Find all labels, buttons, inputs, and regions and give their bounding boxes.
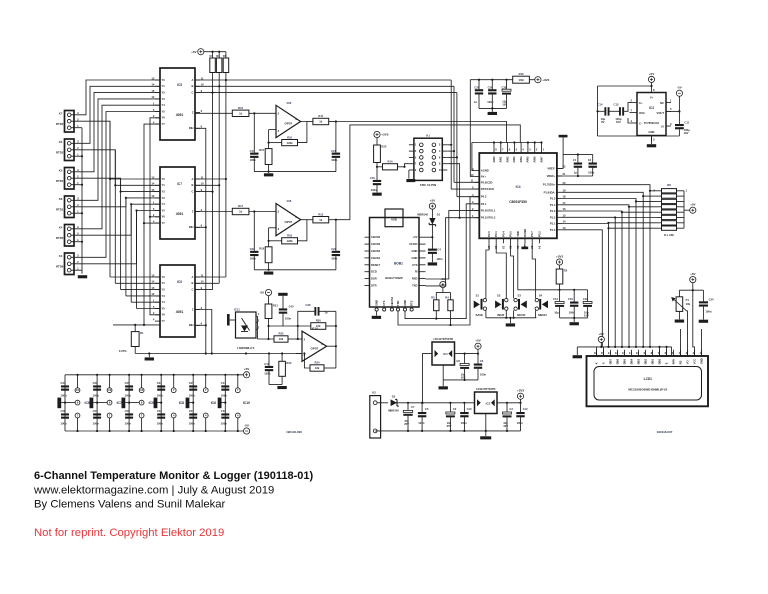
capacitor C2 (100n) xyxy=(588,158,597,174)
wire VREF+ to C1 C2 xyxy=(557,168,593,177)
svg-text:R9: R9 xyxy=(223,54,227,58)
svg-text:DB7: DB7 xyxy=(608,358,612,364)
note 190118-006 xyxy=(286,430,302,434)
wire AGND stub xyxy=(472,143,474,171)
svg-text:100n: 100n xyxy=(157,422,163,426)
svg-text:+5V: +5V xyxy=(244,367,249,371)
resistor R3 (10k) xyxy=(431,295,439,310)
wire C23 to ground rail xyxy=(253,256,255,270)
wire +5V to IC3 xyxy=(598,83,653,88)
svg-text:16V: 16V xyxy=(503,424,508,428)
svg-text:10: 10 xyxy=(439,168,442,172)
svg-text:P0.5: P0.5 xyxy=(509,231,513,237)
svg-text:INH: INH xyxy=(189,225,194,229)
wire R17 node to C23 xyxy=(253,212,255,251)
svg-text:Y4: Y4 xyxy=(162,300,166,304)
wire IC4 to DECR xyxy=(511,243,514,298)
wire RXD to IC4 xyxy=(426,211,480,279)
wire +5V to R3 R4 xyxy=(436,288,450,300)
wire to C13 C16 xyxy=(560,290,575,302)
regulator IC1 (LD1117DT50TR) xyxy=(432,337,455,365)
svg-text:+5V: +5V xyxy=(690,203,695,207)
regulator IC2 (LD1117DT33TR) xyxy=(475,387,498,414)
wire P1 wiper to LCD VO xyxy=(686,311,689,356)
svg-text:-5V: -5V xyxy=(244,423,249,427)
decoupling unit IC10 (C41/C39) xyxy=(218,374,250,432)
wire C16 C18 down xyxy=(560,307,588,322)
resistor R21 (10k) xyxy=(265,304,278,319)
ground (P1) xyxy=(675,320,684,323)
svg-text:Y3: Y3 xyxy=(162,97,166,101)
svg-text:MBR140: MBR140 xyxy=(388,408,399,412)
svg-text:A: A xyxy=(192,177,194,181)
svg-text:C32: C32 xyxy=(157,409,162,413)
svg-text:R6: R6 xyxy=(667,183,671,187)
svg-text:C2: C2 xyxy=(588,158,592,162)
svg-text:BOB-FT232R: BOB-FT232R xyxy=(385,276,402,280)
svg-text:100n: 100n xyxy=(61,422,67,426)
svg-text:IC9: IC9 xyxy=(177,280,182,284)
svg-text:100n: 100n xyxy=(331,158,337,162)
power +3V3 (via R16) xyxy=(529,77,549,83)
svg-text:OSC: OSC xyxy=(639,111,645,115)
wire DECR to ground rail xyxy=(513,310,515,318)
svg-text:GND: GND xyxy=(412,249,418,253)
svg-text:D2: D2 xyxy=(392,394,396,398)
svg-text:P1.5: P1.5 xyxy=(550,197,556,201)
wire op-amp pin3 to R18 xyxy=(268,228,277,247)
svg-text:Y6: Y6 xyxy=(162,116,166,120)
svg-text:DTR: DTR xyxy=(371,284,377,288)
capacitor C9 (10u 25V) xyxy=(446,407,457,428)
ground (K1) xyxy=(406,179,415,182)
svg-text:A: A xyxy=(192,275,194,279)
svg-text:CBUS2: CBUS2 xyxy=(371,242,381,246)
wire C40 xyxy=(282,296,284,326)
svg-text:LD1117DT33TR: LD1117DT33TR xyxy=(476,387,495,391)
svg-text:C24: C24 xyxy=(61,381,66,385)
wire C3 xyxy=(506,403,508,431)
svg-text:Y3: Y3 xyxy=(162,196,166,200)
svg-text:INH: INH xyxy=(189,126,194,130)
svg-text:16: 16 xyxy=(108,388,111,392)
svg-text:Y2: Y2 xyxy=(162,190,166,194)
resistor R19 (120k) xyxy=(282,234,298,244)
wire analog ground rail xyxy=(254,158,336,172)
wire reference rail to IC10 pin3 xyxy=(296,353,302,355)
svg-text:100n: 100n xyxy=(250,256,256,260)
capacitor C21 (100n) xyxy=(331,149,340,162)
svg-text:13k: 13k xyxy=(315,366,320,370)
wire SAVE to ground rail xyxy=(485,310,487,318)
svg-text:19: 19 xyxy=(501,246,505,249)
svg-text:R25: R25 xyxy=(381,145,386,149)
svg-text:Y5: Y5 xyxy=(162,109,166,113)
svg-text:AIN2: AIN2 xyxy=(505,156,509,163)
ground (LCD pin16) xyxy=(573,355,582,358)
svg-text:E: E xyxy=(664,362,668,364)
svg-text:IC5: IC5 xyxy=(85,401,90,405)
svg-text:C31: C31 xyxy=(93,409,98,413)
wire to C18 xyxy=(573,289,587,302)
svg-text:Y7: Y7 xyxy=(162,319,166,323)
resistor R14 (1k) xyxy=(383,160,398,170)
svg-text:4051: 4051 xyxy=(176,113,184,117)
wire TXD to IC4 xyxy=(426,218,480,286)
svg-text:BOB1: BOB1 xyxy=(394,262,403,266)
svg-text:C6: C6 xyxy=(480,359,484,363)
power +3V3 (K1 pull-up) xyxy=(374,131,389,137)
connector K6 (RTD3) xyxy=(56,139,79,161)
svg-text:C3: C3 xyxy=(509,407,513,411)
svg-text:100n: 100n xyxy=(517,421,523,425)
svg-text:100n: 100n xyxy=(418,421,424,425)
svg-text:VCC: VCC xyxy=(692,359,696,365)
svg-text:P0.1/XTAL2: P0.1/XTAL2 xyxy=(481,216,496,220)
wire power ground rail xyxy=(375,430,520,432)
svg-text:C1: C1 xyxy=(573,158,577,162)
author text xyxy=(34,499,226,511)
svg-text:RTD1: RTD1 xyxy=(56,208,64,212)
wire R17 to op-amp xyxy=(249,210,276,212)
svg-text:Y0: Y0 xyxy=(162,78,166,82)
svg-text:C4: C4 xyxy=(437,247,441,251)
svg-text:100n: 100n xyxy=(461,421,467,425)
svg-text:10Ω: 10Ω xyxy=(519,78,525,82)
capacitor C28 (10u 10V) xyxy=(502,85,512,106)
svg-text:+3V3: +3V3 xyxy=(556,254,563,258)
ground (RTD return) xyxy=(78,275,87,278)
svg-text:+3V3: +3V3 xyxy=(542,78,549,82)
ground DGND (IC4) xyxy=(521,243,528,249)
svg-text:100n: 100n xyxy=(221,394,227,398)
svg-text:CTS: CTS xyxy=(382,300,386,306)
svg-text:100n: 100n xyxy=(93,422,99,426)
svg-text:IC7: IC7 xyxy=(177,182,182,186)
svg-text:0.07%: 0.07% xyxy=(119,349,127,353)
svg-text:GND: GND xyxy=(699,358,703,364)
svg-text:6V: 6V xyxy=(601,120,604,124)
svg-text:Y6: Y6 xyxy=(162,313,166,317)
svg-text:AIN7: AIN7 xyxy=(539,156,543,163)
capacitor C20 (1n) xyxy=(474,85,483,104)
power +3V3 (IC2 output) xyxy=(517,389,524,403)
svg-text:MBR140: MBR140 xyxy=(417,212,428,216)
wire IC8 output to AIN3 xyxy=(336,125,520,220)
wire decoupling +5V rail xyxy=(65,374,243,376)
svg-text:RI: RI xyxy=(415,270,418,274)
connector K2 (power input) xyxy=(370,391,381,438)
svg-text:NC: NC xyxy=(660,101,664,105)
svg-text:25V: 25V xyxy=(404,422,409,426)
wire C7 xyxy=(407,403,409,431)
svg-text:C34: C34 xyxy=(709,297,714,301)
svg-text:C: C xyxy=(192,288,194,292)
wire connector ground chain xyxy=(77,128,84,274)
svg-text:K3: K3 xyxy=(59,254,63,258)
svg-text:100n: 100n xyxy=(250,158,256,162)
svg-text:P1.6/IDA-: P1.6/IDA- xyxy=(544,190,556,194)
svg-text:C12: C12 xyxy=(523,407,528,411)
svg-text:VO: VO xyxy=(685,360,689,364)
svg-text:Y5: Y5 xyxy=(162,306,166,310)
svg-text:R1: R1 xyxy=(140,331,144,335)
svg-text:AGND: AGND xyxy=(481,169,489,173)
ground (reference rail) xyxy=(145,357,154,360)
wire IC4 VDD to +3V3 rail xyxy=(517,243,519,289)
svg-text:DSR: DSR xyxy=(371,277,377,281)
power +5V (IC1 output) xyxy=(475,339,481,354)
wire INCR to ground rail xyxy=(505,310,507,318)
svg-text:4051: 4051 xyxy=(176,310,184,314)
svg-text:S2: S2 xyxy=(497,294,501,298)
svg-text:OP07: OP07 xyxy=(285,220,293,224)
svg-text:-5V: -5V xyxy=(677,86,682,90)
svg-text:TC7660COA: TC7660COA xyxy=(644,121,660,125)
wire IC2 output +3V3 xyxy=(497,402,522,404)
svg-text:IC11: IC11 xyxy=(234,308,240,312)
svg-text:C16: C16 xyxy=(568,297,573,301)
svg-text:R/W: R/W xyxy=(671,359,675,365)
svg-text:OP07: OP07 xyxy=(285,122,293,126)
svg-text:P1.3: P1.3 xyxy=(550,209,556,213)
wire IC4 to SAVE xyxy=(486,243,489,298)
svg-text:16: 16 xyxy=(140,388,143,392)
wire IC4 to INCR xyxy=(496,243,506,298)
decoupling unit IC5 (C24/C29) xyxy=(57,374,89,432)
wire LCD top row xyxy=(577,343,671,357)
connector K3 (RTD6) xyxy=(56,253,79,275)
capacitor C6 (100n) xyxy=(474,359,487,377)
svg-text:B: B xyxy=(192,281,194,285)
title text xyxy=(34,470,313,482)
svg-text:C11: C11 xyxy=(684,120,689,124)
svg-text:By Clemens Valens and Sunil Ma: By Clemens Valens and Sunil Malekar xyxy=(34,499,226,511)
svg-text:RTD5: RTD5 xyxy=(56,236,64,240)
capacitor C16 (100n) xyxy=(568,297,578,314)
wire P1 to ground xyxy=(678,311,680,319)
svg-text:190118-006: 190118-006 xyxy=(286,430,302,434)
svg-text:K6: K6 xyxy=(59,140,63,144)
svg-text:Y7: Y7 xyxy=(162,122,166,126)
wire C10 xyxy=(463,403,465,431)
svg-text:Y0: Y0 xyxy=(162,275,166,279)
svg-text:VCCIO: VCCIO xyxy=(409,242,418,246)
power -5V (reference) xyxy=(260,289,272,295)
svg-text:IC6: IC6 xyxy=(287,101,292,105)
resistor R22 (10k) xyxy=(274,332,288,343)
svg-text:R12: R12 xyxy=(238,106,243,110)
svg-text:100n: 100n xyxy=(264,372,270,376)
svg-text:10k: 10k xyxy=(279,337,284,341)
svg-text:INH: INH xyxy=(189,323,194,327)
svg-text:P1.0: P1.0 xyxy=(550,228,556,232)
svg-text:VREF-: VREF- xyxy=(547,167,555,171)
capacitor C14 (10u 6V) xyxy=(598,102,610,124)
svg-text:P2.0: P2.0 xyxy=(487,231,491,237)
capacitor C3 (10u 16V) xyxy=(503,407,514,428)
power +5V (R3 R4) xyxy=(440,277,446,288)
power +5V (USB) xyxy=(429,199,435,210)
svg-text:1µ: 1µ xyxy=(574,170,577,174)
svg-text:C36: C36 xyxy=(125,409,130,413)
svg-text:RTS: RTS xyxy=(410,300,414,306)
svg-text:R23: R23 xyxy=(286,361,291,365)
decoupling unit IC7 (C30/C31) xyxy=(90,374,122,432)
svg-text:S1: S1 xyxy=(476,294,480,298)
power +5V (LCD backlight) xyxy=(598,332,604,343)
wire IC3 charge pump xyxy=(596,86,680,144)
wire R11 to C21 xyxy=(329,120,337,152)
svg-text:C8051F350: C8051F350 xyxy=(509,200,527,204)
svg-text:13: 13 xyxy=(563,226,566,230)
svg-text:C35: C35 xyxy=(125,381,130,385)
svg-text:DECR: DECR xyxy=(517,313,526,317)
voltage reference IC11 (LM336M-2.5) xyxy=(234,308,260,350)
svg-text:MENU: MENU xyxy=(538,313,547,317)
ground (IC8 block) xyxy=(264,272,273,275)
svg-text:DGND: DGND xyxy=(523,229,527,237)
svg-text:A: A xyxy=(192,78,194,82)
svg-text:120k: 120k xyxy=(287,239,293,243)
svg-text:CTS: CTS xyxy=(412,263,418,267)
svg-text:C9: C9 xyxy=(453,407,457,411)
svg-text:Y1: Y1 xyxy=(162,183,166,187)
svg-text:R14: R14 xyxy=(388,160,393,164)
svg-text:100n: 100n xyxy=(189,394,195,398)
svg-text:D1: D1 xyxy=(437,212,441,216)
svg-text:TXD: TXD xyxy=(412,284,417,288)
ground (IC3) xyxy=(647,144,656,147)
svg-text:AV+: AV+ xyxy=(481,175,487,179)
svg-text:SAVE: SAVE xyxy=(475,313,483,317)
ground (C15) xyxy=(372,193,381,196)
svg-text:P0.7: P0.7 xyxy=(530,231,534,237)
ground (power rail) xyxy=(480,436,491,439)
svg-text:100n: 100n xyxy=(125,394,131,398)
svg-text:RTD4: RTD4 xyxy=(56,179,64,183)
capacitor C15 (100n) xyxy=(370,176,381,192)
svg-text:+3V3: +3V3 xyxy=(381,133,388,137)
capacitor C11 (100u 16V) xyxy=(675,120,690,135)
svg-text:CBUS4: CBUS4 xyxy=(371,256,381,260)
svg-text:K2: K2 xyxy=(372,391,376,395)
svg-text:25V: 25V xyxy=(447,424,452,428)
svg-text:CBUS1: CBUS1 xyxy=(390,296,394,306)
op-amp IC10 (OP07) xyxy=(302,327,327,362)
svg-text:R8: R8 xyxy=(216,54,220,58)
wire BOB1 GND xyxy=(376,311,378,316)
wire R12 to op-amp xyxy=(249,112,276,114)
svg-text:IC2: IC2 xyxy=(486,402,491,406)
wire IC1 output +5V xyxy=(455,353,480,355)
wire op-amp pin3 to R15 xyxy=(268,130,277,149)
svg-text:GND: GND xyxy=(403,300,407,306)
op-amp IC6 (OP07) xyxy=(276,101,301,138)
wire IC6 output to AIN2 xyxy=(336,122,507,144)
capacitor C23 (100n) xyxy=(250,247,259,260)
svg-text:R13: R13 xyxy=(318,212,323,216)
svg-text:100n: 100n xyxy=(285,317,291,321)
svg-text:10V: 10V xyxy=(584,314,589,318)
svg-text:8 x 10k: 8 x 10k xyxy=(664,233,674,237)
wire feedback cap xyxy=(297,311,336,339)
svg-text:R19: R19 xyxy=(287,234,292,238)
svg-text:C30: C30 xyxy=(93,381,98,385)
wire C17 to ground rail xyxy=(253,158,255,172)
svg-text:IC5: IC5 xyxy=(177,83,182,87)
svg-text:CBUS3: CBUS3 xyxy=(371,249,381,253)
wire +5V to pull-ups xyxy=(204,51,226,58)
resistor R2 (0) xyxy=(556,269,568,285)
wire +3V3 analog rail xyxy=(470,79,512,81)
svg-text:RTD6: RTD6 xyxy=(56,265,64,269)
resistor R17 (1k) xyxy=(232,204,249,215)
svg-text:DB4: DB4 xyxy=(629,358,633,364)
diode D1 (MBR140) xyxy=(417,209,440,226)
ground (IC1) xyxy=(439,386,448,389)
svg-text:1n: 1n xyxy=(474,100,477,104)
wire C28 xyxy=(506,80,508,109)
wire K1 pin9 to ground xyxy=(408,170,410,179)
svg-text:1k: 1k xyxy=(319,120,322,124)
ground (C4) xyxy=(428,262,437,265)
connector K4 (RTD5) xyxy=(56,225,79,247)
wire 2.5V reference rail xyxy=(135,352,302,357)
svg-text:RS: RS xyxy=(678,360,682,364)
svg-text:100n: 100n xyxy=(371,188,377,192)
wire +3V3 digital rail xyxy=(518,289,561,291)
svg-text:10k: 10k xyxy=(686,302,691,306)
svg-text:AIN4: AIN4 xyxy=(519,156,523,163)
svg-text:+5V: +5V xyxy=(599,332,604,336)
svg-text:16V: 16V xyxy=(684,131,689,135)
svg-text:+5V: +5V xyxy=(475,339,480,343)
svg-text:C27: C27 xyxy=(189,409,194,413)
resistor R15 (402) xyxy=(259,148,272,164)
wire C20 xyxy=(478,80,480,109)
svg-text:S3: S3 xyxy=(518,294,522,298)
svg-text:A: A xyxy=(601,362,605,364)
svg-text:Not for reprint. Copyright Ele: Not for reprint. Copyright Elektor 2019 xyxy=(34,527,224,539)
svg-text:R17: R17 xyxy=(238,204,243,208)
svg-text:Y1: Y1 xyxy=(162,84,166,88)
wire VREF- / cap tops xyxy=(557,153,593,168)
svg-text:GND: GND xyxy=(375,300,379,306)
svg-text:Y1: Y1 xyxy=(162,281,166,285)
svg-text:P1.7/IDA+: P1.7/IDA+ xyxy=(543,183,556,187)
resistor R7 (10k) xyxy=(209,54,215,73)
svg-text:C40: C40 xyxy=(289,304,294,308)
pushbutton S2 (INCR) xyxy=(495,294,508,318)
svg-text:R2: R2 xyxy=(564,269,568,273)
svg-text:CBUS0: CBUS0 xyxy=(371,235,381,239)
svg-text:100n: 100n xyxy=(189,422,195,426)
svg-text:IC4: IC4 xyxy=(516,185,521,189)
ground (IC10 block) xyxy=(277,386,286,389)
svg-text:C7: C7 xyxy=(411,405,415,409)
diode D2 (MBR140) xyxy=(388,394,399,412)
svg-text:LM336M-2.5: LM336M-2.5 xyxy=(237,346,254,350)
svg-text:-5V: -5V xyxy=(260,291,265,295)
power +5V (IC3) xyxy=(648,72,654,83)
wire IC9 Y7 to R1 xyxy=(113,324,160,332)
wire IC2 ground xyxy=(485,414,487,437)
potentiometer P1 (10k) xyxy=(671,297,690,312)
svg-text:+5V: +5V xyxy=(413,235,418,239)
svg-text:C: C xyxy=(192,190,194,194)
svg-text:+5V: +5V xyxy=(690,272,695,276)
